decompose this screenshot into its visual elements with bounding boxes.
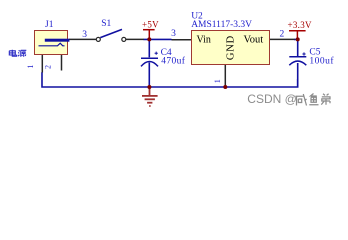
svg-text:3: 3 [82,30,87,40]
svg-text:3: 3 [171,29,176,39]
svg-text:CSDN @: CSDN @ [247,92,297,106]
svg-text:GND: GND [226,35,237,60]
svg-text:J1: J1 [45,20,54,30]
svg-text:+3.3V: +3.3V [288,20,313,30]
svg-text:S1: S1 [101,19,111,29]
svg-text:Vout: Vout [244,35,264,46]
svg-text:+5V: +5V [142,20,159,30]
svg-text:1: 1 [213,79,222,83]
svg-text:100uf: 100uf [309,56,334,67]
svg-text:470uf: 470uf [161,55,186,66]
svg-text:1: 1 [26,65,35,69]
svg-text:AMS1117-3.3V: AMS1117-3.3V [191,20,252,30]
svg-text:2: 2 [280,29,285,39]
svg-text:Vin: Vin [197,35,211,46]
svg-text:2: 2 [43,65,52,69]
